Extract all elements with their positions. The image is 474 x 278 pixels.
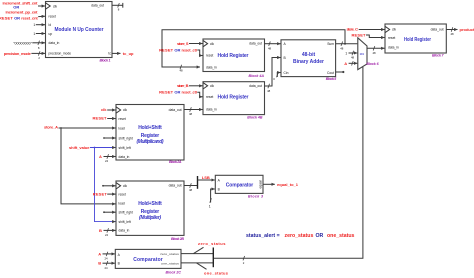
svg-text:Binary Adder: Binary Adder: [293, 59, 324, 65]
label RESET OR reset_ctl to Block 4A reset: [159, 47, 202, 55]
svg-text:LSB: LSB: [202, 175, 210, 180]
label store_A net to load of 2A and 2B: [44, 125, 116, 204]
svg-text:data_out: data_out: [249, 84, 262, 88]
svg-text:Block 2A: Block 2A: [169, 160, 182, 164]
svg-text:RESET: RESET: [352, 32, 367, 37]
svg-text:data_in: data_in: [119, 229, 130, 233]
svg-text:data_out: data_out: [169, 184, 182, 188]
label A to comparator 2C: [98, 251, 115, 260]
adder block: 48-bit Binary Adder (Block 5): [281, 40, 336, 77]
svg-text:shift_right: shift_right: [119, 211, 133, 215]
svg-text:clk: clk: [123, 108, 127, 112]
label clk to Block 2A: [101, 107, 116, 112]
svg-text:1: 1: [345, 52, 347, 56]
label RESET to Block 2A: [93, 116, 116, 121]
svg-text:precision_mode: precision_mode: [49, 52, 72, 56]
svg-text:clk: clk: [123, 184, 127, 188]
svg-text:tc: tc: [108, 52, 111, 56]
callout one_status: [197, 263, 229, 275]
svg-text:RESET OR reset_ctl: RESET OR reset_ctl: [159, 89, 197, 94]
svg-text:48: 48: [268, 46, 272, 50]
svg-text:Block 3: Block 3: [248, 194, 263, 198]
svg-text:clk: clk: [210, 42, 214, 46]
svg-text:shift_value: shift_value: [69, 145, 90, 150]
svg-text:clk: clk: [101, 107, 107, 112]
svg-text:48: 48: [179, 69, 183, 73]
svg-text:24: 24: [105, 233, 109, 237]
stub shift_right of 2A: [103, 137, 115, 139]
svg-text:48: 48: [189, 188, 193, 192]
svg-text:data_in: data_in: [388, 46, 399, 50]
label RESET to Block 2B: [93, 191, 116, 196]
stub clk of 2B: [102, 185, 115, 187]
svg-text:Hold+Shift: Hold+Shift: [138, 201, 162, 207]
svg-text:load: load: [119, 202, 125, 206]
register block: Hold Register (Block 4A): [203, 39, 265, 72]
shift register block: Hold+Shift Register Multiplicand (Block 2A): [116, 105, 184, 161]
wire data_out stub of Block 1: [112, 3, 123, 12]
svg-text:reset: reset: [388, 36, 395, 40]
svg-text:RESET: RESET: [93, 191, 108, 196]
svg-text:A: A: [98, 251, 101, 256]
svg-text:Block 4B: Block 4B: [247, 116, 263, 120]
label store_B to Block 4B clk: [177, 83, 203, 88]
tick 2 on merged status wire: [243, 256, 245, 265]
counter block: Module N Up Counter (Block 1): [46, 2, 113, 58]
label A to mux input: [344, 61, 357, 66]
svg-text:ld: ld: [49, 23, 52, 27]
svg-text:reset: reset: [206, 54, 213, 58]
shift register block: Hold+Shift Register Multiplier (Block 2B): [116, 181, 184, 235]
mux (Block 6): [358, 38, 367, 70]
svg-text:Comparator: Comparator: [226, 183, 254, 189]
wire clk into Block 1: [38, 5, 45, 7]
svg-text:data_out: data_out: [169, 108, 182, 112]
constant 0 to up pin: [33, 32, 45, 36]
svg-text:Hold Register: Hold Register: [218, 95, 249, 101]
label B to data_in of 2B: [99, 228, 116, 237]
svg-text:B: B: [99, 228, 102, 233]
svg-text:reset: reset: [119, 192, 126, 196]
label RESET to Block 7 reset: [352, 32, 385, 37]
register block: Hold Register (Block 4B): [203, 82, 265, 115]
svg-text:increment_shift_cnt: increment_shift_cnt: [3, 1, 39, 6]
wire zero_status output to merge bar: [181, 253, 213, 255]
svg-text:shift_right: shift_right: [119, 136, 133, 140]
svg-text:RESET OR reset_ctl: RESET OR reset_ctl: [159, 47, 197, 52]
svg-text:24: 24: [104, 266, 108, 270]
svg-text:RESET: RESET: [93, 116, 108, 121]
svg-text:shift_left: shift_left: [119, 220, 131, 224]
svg-text:clk: clk: [392, 28, 396, 32]
svg-text:one_status: one_status: [204, 270, 229, 275]
svg-text:store_A: store_A: [44, 125, 58, 130]
register block: Hold Register (Block 7): [385, 24, 446, 53]
svg-text:status_alert =zero_statusORone: status_alert =zero_statusORone_status: [246, 233, 355, 239]
svg-text:Block 1: Block 1: [100, 59, 111, 63]
svg-text:24: 24: [105, 159, 109, 163]
svg-text:data_in: data_in: [206, 108, 217, 112]
svg-text:zero_status: zero_status: [160, 252, 179, 256]
wire slice bar to comparator A: [198, 179, 215, 181]
svg-text:store_B: store_B: [177, 83, 189, 88]
wire adder Sum to mux input: [336, 42, 358, 51]
svg-text:increment_pp_cnt: increment_pp_cnt: [6, 10, 39, 15]
svg-text:store_S: store_S: [177, 41, 189, 46]
svg-text:one_status: one_status: [161, 262, 179, 266]
svg-text:store_C: store_C: [347, 26, 359, 31]
label precision_mode input: [4, 51, 45, 60]
svg-text:48: 48: [340, 46, 344, 50]
svg-text:A: A: [99, 154, 102, 159]
svg-text:data_out: data_out: [431, 28, 444, 32]
svg-text:up: up: [49, 32, 53, 36]
svg-text:1: 1: [33, 23, 35, 27]
label increment_shift_cnt OR increment_pp_cnt: [3, 1, 39, 15]
label RESET OR reset_ctl to Block 4B reset: [159, 89, 202, 96]
svg-text:tc_up: tc_up: [123, 51, 134, 56]
svg-text:precision_mode: precision_mode: [4, 51, 32, 56]
svg-text:RESET OR reset_cnt: RESET OR reset_cnt: [0, 15, 38, 20]
constant 1 to comparator B via elbow: [209, 189, 215, 208]
svg-text:1: 1: [209, 204, 211, 208]
LSB slice bar: [197, 176, 199, 189]
svg-text:Hold Register: Hold Register: [404, 37, 431, 43]
svg-text:shift_left: shift_left: [119, 146, 131, 150]
svg-text:Block 6: Block 6: [366, 62, 379, 66]
stub shift_right of 2B: [103, 211, 115, 213]
wire Block 4A data_out to adder A: [265, 42, 281, 51]
label store_C to Block 7 clk: [347, 26, 385, 31]
svg-text:Hold+Shift: Hold+Shift: [138, 125, 162, 131]
wire Block 7 data_out to product: [446, 27, 474, 36]
svg-text:Block 2B: Block 2B: [171, 237, 184, 241]
svg-text:101: 101: [360, 52, 365, 56]
svg-text:reset: reset: [206, 95, 213, 99]
wire adder Cout stub: [336, 71, 345, 73]
svg-text:48: 48: [351, 55, 355, 59]
svg-text:48: 48: [450, 32, 454, 36]
svg-text:Hold Register: Hold Register: [218, 53, 249, 59]
label A to data_in of 2A: [99, 154, 116, 163]
wire tc output with label tc_up: [112, 51, 134, 56]
svg-text:(Multiplicand): (Multiplicand): [137, 139, 164, 145]
svg-text:48: 48: [189, 112, 193, 116]
svg-text:1: 1: [33, 32, 35, 36]
svg-text:Comparator: Comparator: [133, 257, 163, 263]
label shift_value blue net to shift_left of 2A and 2B: [69, 145, 116, 221]
svg-text:Cin: Cin: [284, 71, 289, 75]
svg-text:48-bit: 48-bit: [302, 52, 316, 58]
svg-text:(Multiplier): (Multiplier): [139, 215, 161, 221]
wire feedback net: adder Sum to Block 4A data_in: [162, 30, 346, 73]
svg-text:equal: equal: [259, 180, 263, 188]
svg-text:reset: reset: [119, 117, 126, 121]
svg-text:data_in: data_in: [206, 65, 217, 69]
svg-text:load: load: [119, 126, 125, 130]
svg-text:zero_status: zero_status: [198, 241, 226, 246]
wire reset into Block 1: [38, 15, 45, 17]
svg-text:48: 48: [372, 51, 376, 55]
wire comparator output equal_to_1: [263, 182, 299, 187]
comparator block (Block 2C): [115, 249, 181, 268]
wire Block 4B data_out up to adder B: [265, 58, 281, 93]
constant 1 to mux input: [345, 51, 357, 60]
label store_S to Block 4A clk: [177, 41, 203, 46]
svg-text:data_out: data_out: [249, 42, 262, 46]
svg-text:Block 5: Block 5: [326, 77, 338, 81]
constant 1 to ld pin: [33, 23, 45, 27]
svg-text:B: B: [98, 261, 101, 266]
wire one_status output to merge bar: [181, 262, 213, 264]
svg-text:48: 48: [267, 89, 271, 93]
label B to comparator 2C: [98, 261, 115, 270]
comparator block (Block 3): [215, 175, 263, 193]
svg-text:data_out: data_out: [91, 3, 104, 7]
callout zero_status: [194, 241, 227, 253]
merge bar: [212, 248, 214, 268]
svg-text:Sum: Sum: [327, 42, 334, 46]
svg-text:product: product: [460, 27, 474, 32]
svg-text:"00000000": "00000000": [13, 42, 33, 46]
svg-text:data_in: data_in: [119, 155, 130, 159]
svg-text:clk: clk: [210, 84, 214, 88]
svg-text:reset: reset: [49, 14, 56, 18]
svg-text:Block 4A: Block 4A: [249, 74, 265, 78]
svg-text:Cout: Cout: [327, 71, 334, 75]
svg-text:A: A: [344, 61, 347, 66]
constant 00000000 to data_in pin: [13, 41, 45, 50]
svg-text:Block 7: Block 7: [432, 54, 445, 58]
constant 0 to adder Cin: [273, 73, 280, 82]
wire mux select from status comparator (vertical right): [213, 67, 363, 258]
svg-text:Block 2C: Block 2C: [166, 270, 182, 274]
wire Block 2B data_out to LSB slice bar: [184, 183, 198, 192]
svg-text:equal_to_1: equal_to_1: [277, 182, 299, 187]
svg-text:24: 24: [104, 257, 108, 261]
svg-text:clk: clk: [53, 4, 57, 8]
wire mux output to Block 7 data_in: [367, 46, 385, 55]
svg-text:Module N Up Counter: Module N Up Counter: [55, 27, 104, 33]
svg-text:data_in: data_in: [49, 41, 60, 45]
wire Block 2A data_out to Block 4B data_in: [184, 107, 203, 116]
